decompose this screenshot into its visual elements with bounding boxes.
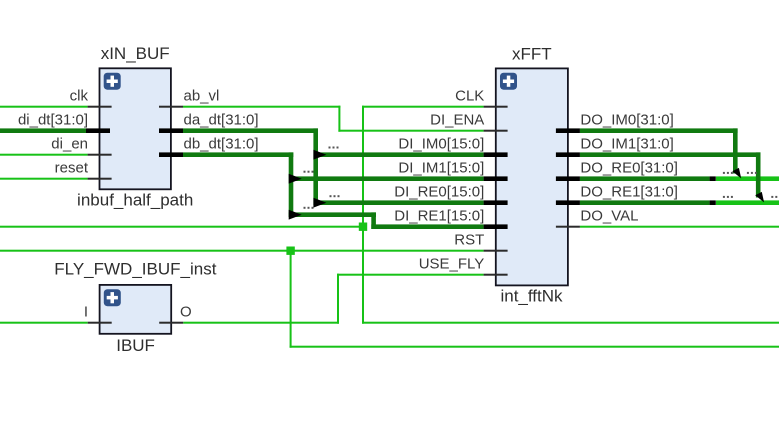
bus DO_IM0 horizontal <box>580 128 738 133</box>
pin stub DI_RE0 bus <box>484 200 508 205</box>
bus DI_RE0 branch <box>316 200 484 205</box>
pin stub da_dt bus <box>159 128 183 133</box>
block IBUF body <box>100 285 172 334</box>
bus bright segment row D right <box>716 176 779 181</box>
svg-text:xFFT: xFFT <box>512 44 552 63</box>
arrow branch to DI_IM0 <box>313 150 326 160</box>
bus db_dt vertical x=291 <box>289 152 294 217</box>
wire clk input from left edge <box>0 106 88 108</box>
svg-text:xIN_BUF: xIN_BUF <box>101 44 170 63</box>
pin stub clk <box>88 106 112 108</box>
wire ab_vl output horizontal <box>183 106 341 108</box>
junction on row G branch <box>286 247 294 255</box>
bus tap black row E <box>710 200 716 205</box>
svg-text:CLK: CLK <box>455 88 484 105</box>
svg-text:DO_IM0[31:0]: DO_IM0[31:0] <box>580 112 673 129</box>
wire IBUF input I from left edge <box>0 322 88 324</box>
wire reset input from left edge <box>0 178 88 180</box>
svg-text:da_dt[31:0]: da_dt[31:0] <box>184 112 259 129</box>
svg-text:ab_vl: ab_vl <box>184 88 220 105</box>
block xIN_BUF body <box>100 68 171 189</box>
bus db_dt step down x=373.6 <box>371 212 376 229</box>
bus da_dt vertical x=315.7 <box>313 128 318 205</box>
svg-text:O: O <box>180 304 192 321</box>
pin stub DO_RE0 bus <box>556 176 580 181</box>
pin stub di_en <box>88 154 112 156</box>
svg-text:inbuf_half_path: inbuf_half_path <box>77 191 193 210</box>
bus db_dt horizontal <box>183 152 293 157</box>
bus DI_RE1 horizontal <box>371 224 483 229</box>
bus DO_RE1 dark segment <box>580 200 710 205</box>
svg-text:USE_FLY: USE_FLY <box>419 256 485 273</box>
pin stub DI_RE1 bus <box>484 224 508 229</box>
bus di_dt input from left edge <box>0 128 86 133</box>
svg-text:RST: RST <box>454 232 484 249</box>
wire CLK horizontal <box>362 106 484 108</box>
wire IBUF output O horizontal <box>183 322 339 324</box>
pin stub USE_FLY <box>484 274 508 276</box>
svg-text:int_fftNk: int_fftNk <box>500 286 563 305</box>
pin stub DI_IM1 bus <box>484 176 508 181</box>
svg-text:DI_IM1[15:0]: DI_IM1[15:0] <box>398 160 484 177</box>
svg-text:DO_RE1[31:0]: DO_RE1[31:0] <box>580 184 678 201</box>
bus bright segment row E right <box>716 200 779 205</box>
wire vertical x=338 row H to row J <box>337 274 339 324</box>
svg-text:clk: clk <box>70 88 89 105</box>
bus DO_IM0 vertical x=735.3 <box>733 128 738 173</box>
pin stub DI_ENA <box>484 130 508 132</box>
bus DI_IM1 branch <box>291 176 484 181</box>
expand icon xFFT <box>500 73 517 90</box>
svg-text:DI_IM0[15:0]: DI_IM0[15:0] <box>398 136 484 153</box>
svg-text:I: I <box>84 304 88 321</box>
pin stub CLK <box>484 106 508 108</box>
svg-text:di_en: di_en <box>51 136 88 153</box>
pin stub IBUF I <box>88 322 112 324</box>
pin stub DI_IM0 bus <box>484 152 508 157</box>
svg-text:DI_RE1[15:0]: DI_RE1[15:0] <box>394 208 484 225</box>
pin stub ab_vl <box>159 106 183 108</box>
bus da_dt horizontal <box>183 128 318 133</box>
wire di_en input from left edge <box>0 154 88 156</box>
pin stub DO_IM1 bus <box>556 152 580 157</box>
ellipsis row E right <box>771 196 777 198</box>
arrow branch to DI_RE0 <box>313 198 326 208</box>
wire net row F from left edge to junction <box>0 226 363 228</box>
pin stub DO_IM0 bus <box>556 128 580 133</box>
pin stub DO_RE1 bus <box>556 200 580 205</box>
bus DI_IM0 branch <box>316 152 484 157</box>
block xFFT body <box>496 68 568 285</box>
wire USE_FLY horizontal <box>337 274 484 276</box>
bus DO_IM1 vertical x=758.2 <box>756 152 761 197</box>
ellipsis near DI_RE0 branch <box>330 195 340 197</box>
arrow DO_IM0 joins row D <box>732 168 741 179</box>
expand icon xIN_BUF <box>104 73 121 90</box>
pin stub DO_VAL <box>556 226 580 228</box>
bus DO_IM1 horizontal <box>580 152 761 157</box>
svg-text:DO_IM1[31:0]: DO_IM1[31:0] <box>580 136 673 153</box>
expand icon IBUF <box>104 289 121 306</box>
ellipsis near DI_IM0 branch <box>329 147 339 149</box>
wire DI_ENA horizontal <box>338 130 483 132</box>
svg-text:DO_RE0[31:0]: DO_RE0[31:0] <box>580 160 678 177</box>
pin stub reset <box>88 178 112 180</box>
svg-text:DI_RE0[15:0]: DI_RE0[15:0] <box>394 184 484 201</box>
junction on clk trunk at row F <box>359 223 367 231</box>
wire net row G from left edge to RST pin <box>0 250 484 252</box>
ellipsis row D right <box>747 172 757 174</box>
bus DO_RE0 dark segment <box>580 176 710 181</box>
svg-text:FLY_FWD_IBUF_inst: FLY_FWD_IBUF_inst <box>54 260 216 279</box>
ellipsis row E left <box>723 196 733 198</box>
arrow branch to DI_IM1 <box>289 174 302 184</box>
arrow DO_IM1 joins row E <box>755 192 764 203</box>
wire branch vertical x=290.6 row G to row K <box>290 250 292 348</box>
svg-text:IBUF: IBUF <box>116 336 155 355</box>
wire row K to right edge <box>290 346 779 348</box>
svg-text:DO_VAL: DO_VAL <box>580 208 638 225</box>
bus tap black row D <box>710 176 716 181</box>
svg-text:reset: reset <box>55 160 89 177</box>
pin stub di_dt bus <box>86 128 110 133</box>
pin stub RST <box>484 250 508 252</box>
bus db_dt half-row horizontal <box>289 212 376 217</box>
wire ab_vl step down at x=339.4 <box>338 106 340 132</box>
wire DO_VAL to right edge <box>580 226 779 228</box>
wire clk net vertical trunk x=363 <box>362 106 364 324</box>
ellipsis near DI_RE1 corner <box>304 207 314 209</box>
arrow corner to DI_RE1 <box>289 210 302 220</box>
pin stub IBUF O <box>159 322 183 324</box>
wire row J from trunk to right edge <box>362 322 779 324</box>
ellipsis row D left <box>723 172 733 174</box>
ellipsis near DI_IM1 branch <box>304 171 314 173</box>
svg-text:DI_ENA: DI_ENA <box>430 112 484 129</box>
svg-text:db_dt[31:0]: db_dt[31:0] <box>184 136 259 153</box>
pin stub db_dt bus <box>159 152 183 157</box>
svg-text:di_dt[31:0]: di_dt[31:0] <box>18 112 88 129</box>
